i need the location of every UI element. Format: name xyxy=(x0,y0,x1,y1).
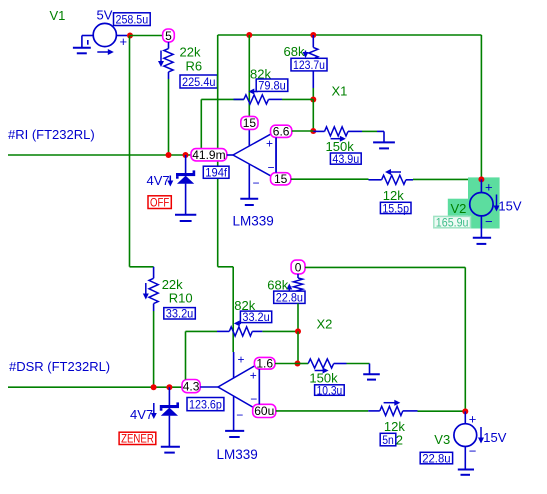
wire jog to R10 xyxy=(130,266,154,268)
probe box 43.9u (150k) xyxy=(330,153,361,164)
junction dot +input node (bottom) xyxy=(295,361,301,367)
probe box 15.5p (12k) xyxy=(380,202,411,213)
node bubble 60u (- input) xyxy=(253,404,276,417)
svg-text:43.9u: 43.9u xyxy=(332,152,359,166)
svg-text:+: + xyxy=(469,411,477,426)
probe box 33.2u (82k pot bottom) with wiper arrow xyxy=(234,310,272,326)
svg-text:15V: 15V xyxy=(483,430,506,445)
svg-text:+: + xyxy=(238,353,245,367)
svg-text:−: − xyxy=(236,408,243,422)
svg-text:+: + xyxy=(250,369,257,383)
svg-text:4V7: 4V7 xyxy=(147,173,170,188)
svg-text:10.3u: 10.3u xyxy=(317,383,343,397)
svg-text:+: + xyxy=(485,180,493,195)
probe bubble 41.9m (comparator 1 output) xyxy=(191,149,227,161)
junction dot rail/68k xyxy=(310,32,316,38)
resistor 68k (bottom) xyxy=(267,274,302,293)
svg-text:68k: 68k xyxy=(284,44,305,59)
junction dot R6/#RI xyxy=(166,152,172,158)
comparator U1 LM339 (top) xyxy=(227,129,276,228)
wire R10 bottom to #DSR line xyxy=(153,311,155,387)
svg-text:#DSR (FT232RL): #DSR (FT232RL) xyxy=(9,359,110,374)
ground at V2 xyxy=(473,238,491,244)
resistor 150k (top) xyxy=(313,127,362,154)
comparator U2 LM339 (bottom) xyxy=(200,352,259,462)
wire +input to junction xyxy=(292,130,314,132)
svg-text:−: − xyxy=(485,214,493,229)
wire R6 bottom to #RI line xyxy=(168,79,170,155)
wire base between inputs (bottom) xyxy=(258,369,260,404)
junction dot +input node xyxy=(310,128,316,134)
probe box 33.2u (R10) xyxy=(164,308,196,319)
wire -input to 12k xyxy=(291,178,369,180)
svg-text:258.5u: 258.5u xyxy=(116,12,149,26)
svg-text:1.6: 1.6 xyxy=(256,357,273,371)
ground at V3 xyxy=(458,470,474,475)
wire 150k to ground corner xyxy=(362,130,377,132)
svg-text:60u: 60u xyxy=(254,404,274,418)
probe box 22.8u (V3) xyxy=(420,452,452,464)
svg-text:123.6p: 123.6p xyxy=(189,397,222,411)
resistor 68k (top) xyxy=(284,35,318,88)
probe box 194f xyxy=(203,166,229,178)
node bubble 6.6 (+ input) xyxy=(271,125,292,137)
svg-text:15: 15 xyxy=(243,116,257,130)
junction dot rail/pot1 xyxy=(246,32,252,38)
wire rail to pot1 wiper and comparator V+ xyxy=(248,35,250,117)
svg-text:15: 15 xyxy=(274,172,288,186)
node 5 bubble xyxy=(163,29,175,42)
svg-text:41.9m: 41.9m xyxy=(192,148,225,162)
svg-text:R10: R10 xyxy=(169,291,193,306)
junction dot V1 output xyxy=(127,33,133,39)
ground at comparator 1 xyxy=(240,199,258,205)
node bubble 1.6 (+ input) xyxy=(254,357,275,369)
svg-text:123.7u: 123.7u xyxy=(293,58,325,72)
node bubble 15 (comparator V+ supply) xyxy=(241,116,258,129)
wire right rail down to V3 xyxy=(464,267,466,411)
svg-text:X1: X1 xyxy=(332,84,348,99)
svg-text:22.8u: 22.8u xyxy=(422,451,450,465)
svg-text:4V7: 4V7 xyxy=(130,407,153,422)
probe box 79.8u (82k pot) with wiper arrow xyxy=(248,79,288,95)
ground at 150k (bottom) xyxy=(363,374,380,379)
status box ZENER xyxy=(119,432,156,444)
wire -input to 12k (bottom) xyxy=(276,410,369,412)
junction dot V3 xyxy=(462,408,468,414)
svg-text:4.3: 4.3 xyxy=(183,379,200,393)
probe box 5n (12k bottom) xyxy=(380,433,396,446)
svg-text:225.4u: 225.4u xyxy=(182,75,216,89)
svg-text:V3: V3 xyxy=(434,432,450,447)
wire 68k bottom xyxy=(312,88,314,100)
svg-text:V2: V2 xyxy=(451,201,467,216)
resistor 150k (bottom) xyxy=(298,359,347,386)
probe box 22.8u (68k bottom) xyxy=(274,291,305,303)
wire corner to ground xyxy=(377,131,384,142)
svg-text:6.6: 6.6 xyxy=(273,125,290,139)
wire rail down to comparator 2 xyxy=(232,267,234,352)
svg-text:V1: V1 xyxy=(50,8,66,23)
probe box 258.5u xyxy=(114,13,151,26)
wire 12k to V2 node xyxy=(413,178,481,180)
svg-text:R6: R6 xyxy=(186,59,203,74)
wire feedback pot2 left xyxy=(186,331,218,379)
ground at 150k (top) xyxy=(373,142,395,148)
svg-text:15V: 15V xyxy=(498,198,521,213)
svg-text:−: − xyxy=(469,444,477,459)
resistor R6 22k xyxy=(158,42,202,79)
wire 150k to ground corner (bottom) xyxy=(347,364,370,374)
ground at V1 xyxy=(73,48,91,54)
wire 68k bottom to pot2 junction xyxy=(297,303,299,331)
junction dot pot1 right xyxy=(310,97,316,103)
svg-text:LM339: LM339 xyxy=(217,447,258,462)
resistor 12k (bottom) xyxy=(368,400,417,434)
svg-text:5: 5 xyxy=(165,29,172,43)
svg-text:194f: 194f xyxy=(205,166,227,180)
junction dot zener2/#DSR xyxy=(166,384,172,390)
svg-text:5V: 5V xyxy=(97,8,113,23)
wire rail jog xyxy=(218,266,234,268)
svg-text:33.2u: 33.2u xyxy=(242,310,269,324)
probe box 10.3u (150k bottom) xyxy=(315,385,345,396)
svg-text:33.2u: 33.2u xyxy=(166,307,194,321)
probe box 123.6p xyxy=(187,398,224,411)
wire #DSR line xyxy=(8,386,182,388)
probe box 165.9u (V2, selected) xyxy=(434,216,471,227)
zener diode 4V7 (bottom) xyxy=(130,387,179,446)
svg-text:22k: 22k xyxy=(180,45,201,60)
ground at comparator 2 xyxy=(225,431,244,437)
svg-text:165.9u: 165.9u xyxy=(436,215,469,229)
wire 12k to V3 node xyxy=(418,410,466,412)
voltage source V3 (15V) xyxy=(434,411,506,468)
wire V1 down left rail xyxy=(129,36,131,267)
svg-text:#RI (FT232RL): #RI (FT232RL) xyxy=(8,127,95,142)
svg-text:22.8u: 22.8u xyxy=(276,291,303,305)
selection highlight V2 xyxy=(448,177,500,228)
wire #RI line xyxy=(8,154,192,156)
ground at zener2 xyxy=(161,447,180,453)
svg-text:5n: 5n xyxy=(382,433,394,447)
wire node 0 to right rail xyxy=(305,266,465,268)
wire pot1 left down to output node xyxy=(200,99,202,155)
wire 15V top rail xyxy=(218,34,482,36)
resistor R10 22k xyxy=(143,267,193,311)
potentiometer 82k (top) xyxy=(201,67,313,105)
svg-text:2: 2 xyxy=(396,432,403,447)
junction dot zener1/#RI xyxy=(183,152,189,158)
svg-text:X2: X2 xyxy=(317,317,333,332)
potentiometer 82k (bottom) xyxy=(217,298,298,336)
wire V1 to node 5 xyxy=(130,35,163,37)
svg-text:OFF: OFF xyxy=(150,195,169,209)
probe box 225.4u (R6) xyxy=(180,75,218,88)
svg-text:LM339: LM339 xyxy=(233,214,274,229)
wire 68k node down to +input node xyxy=(312,100,314,132)
node bubble 0 (68k top) xyxy=(291,260,305,274)
svg-text:79.8u: 79.8u xyxy=(258,79,286,93)
voltage source V1 xyxy=(82,23,127,55)
node bubble 4.3 (comparator 2 output) xyxy=(182,380,200,393)
zener diode 4V7 (top) xyxy=(147,155,196,214)
ground at zener1 xyxy=(175,215,196,221)
probe box 123.7u (68k) xyxy=(291,58,327,71)
junction dot R10/#DSR xyxy=(151,384,157,390)
node bubble 15 (- input) xyxy=(271,173,291,185)
voltage source V2 (15V) xyxy=(451,179,522,237)
wire +input bubble to junction (bottom) xyxy=(275,363,298,365)
junction dot V2 xyxy=(478,176,484,182)
wire down to +input node (bottom) xyxy=(297,331,299,363)
wire rail down left xyxy=(217,35,219,267)
svg-text:ZENER: ZENER xyxy=(121,432,154,446)
resistor 12k (top) xyxy=(369,169,414,203)
junction dot pot2/68k xyxy=(295,328,301,334)
wire rail down right to V2 xyxy=(480,35,482,177)
wire base between inputs xyxy=(275,137,277,172)
status box OFF xyxy=(148,196,171,209)
svg-text:−: − xyxy=(253,176,260,190)
svg-text:15.5p: 15.5p xyxy=(382,201,409,215)
svg-text:0: 0 xyxy=(295,260,302,274)
